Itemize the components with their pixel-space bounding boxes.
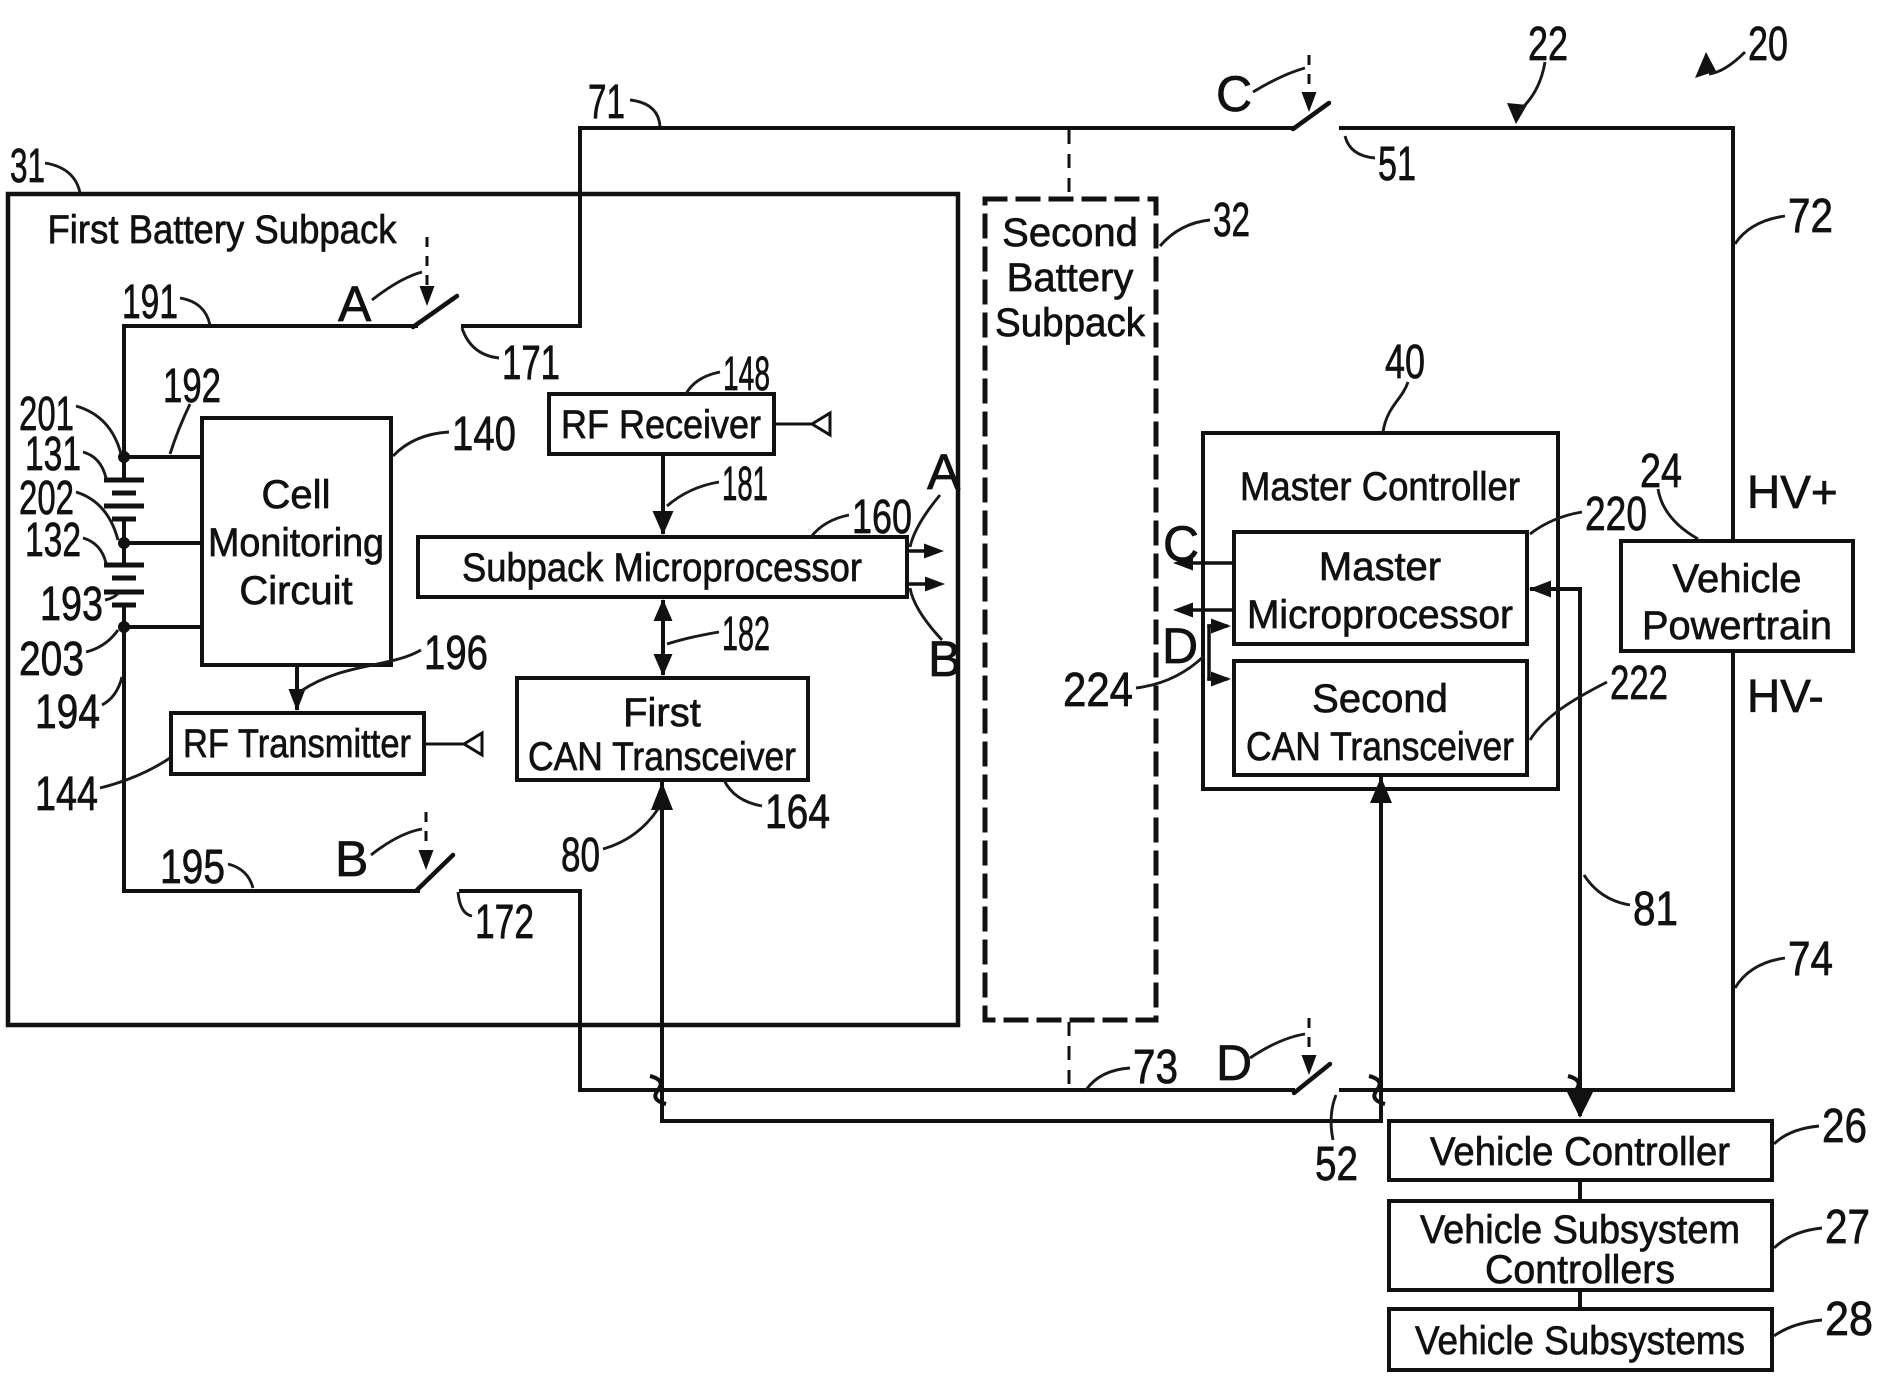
box: RF Receiver 148 — [549, 394, 774, 454]
leader 195 — [228, 864, 253, 888]
crossover jog at CAN line x=662 on HV- bus — [650, 1076, 666, 1104]
arrowhead: switch D control stub — [1302, 1055, 1317, 1075]
wire: CAN bus up to Second CAN Transceiver — [1379, 775, 1383, 1121]
box: RF Transmitter 144 — [171, 713, 424, 774]
leader 171 — [462, 328, 499, 358]
svg-text:172: 172 — [475, 896, 534, 949]
arrowhead: switch B control stub — [419, 850, 434, 870]
svg-text:CAN Transceiver: CAN Transceiver — [1246, 725, 1514, 769]
svg-text:Master Controller: Master Controller — [1240, 465, 1520, 509]
svg-text:CAN Transceiver: CAN Transceiver — [528, 735, 796, 779]
svg-text:171: 171 — [502, 337, 560, 390]
wire 81: Master Microprocessor to Vehicle Controller — [1532, 589, 1580, 1114]
svg-text:51: 51 — [1378, 138, 1416, 191]
arrowhead: D bracket into Second CAN Transceiver — [1211, 672, 1231, 687]
wire: Vehicle Subsystem Controllers to Vehicle Subsystems — [1578, 1290, 1582, 1309]
box: Second Battery Subpack 32 (dashed) — [985, 199, 1156, 1020]
arrowhead: 182 down into First CAN Transceiver — [654, 654, 673, 676]
leader 22 arrow — [1520, 62, 1545, 110]
leader 203 — [86, 630, 118, 652]
leader 71 — [630, 100, 660, 126]
leader 160 — [811, 515, 849, 537]
leader 201 — [76, 406, 121, 454]
wire 191: from battery top node to switch A — [124, 324, 416, 328]
svg-text:Battery: Battery — [1007, 256, 1134, 300]
wire 72: right HV+ vertical down to Vehicle Powertrain — [1731, 128, 1735, 541]
svg-text:195: 195 — [160, 841, 225, 894]
svg-text:Vehicle Subsystem: Vehicle Subsystem — [1420, 1208, 1740, 1252]
leader 132 — [83, 538, 106, 563]
switch D blade 52 — [1294, 1064, 1330, 1093]
svg-text:140: 140 — [452, 408, 516, 461]
antenna symbol of RF Receiver — [812, 413, 830, 435]
wire 172: segment after switch B, then down — [461, 891, 580, 1090]
wire 192: node 201 to Cell Monitoring Circuit — [124, 455, 202, 459]
wire: D-bracket 224 — [1207, 626, 1211, 679]
crossover jog at line 81 x=1580 on HV- bus — [1568, 1076, 1584, 1104]
svg-text:Second: Second — [1002, 211, 1138, 255]
box: Vehicle Subsystem Controllers 27 — [1389, 1201, 1772, 1290]
svg-text:74: 74 — [1788, 933, 1833, 986]
leader A-out — [910, 495, 940, 547]
arrowhead: C upper out of Master Controller — [1173, 556, 1193, 571]
switch A dashed control stub — [426, 237, 429, 288]
svg-text:B: B — [928, 631, 961, 687]
dashed link top bus to Second Battery Subpack — [1068, 130, 1071, 197]
arrowhead: 196 into RF Transmitter — [289, 689, 306, 711]
wire 196: Cell Monitoring Circuit to RF Transmitter — [295, 665, 299, 708]
battery cell 131 plates — [104, 478, 144, 483]
box: Master Microprocessor 220 — [1234, 532, 1527, 644]
arrowhead: CAN bus 80 up into First CAN Transceiver — [651, 782, 673, 810]
svg-text:182: 182 — [722, 608, 770, 661]
box: Cell Monitoring Circuit 140 — [202, 418, 391, 665]
svg-text:31: 31 — [10, 140, 45, 193]
arrowhead: B output of Subpack Microprocessor — [925, 577, 945, 592]
wire 71: top HV+ bus left segment — [580, 126, 1294, 130]
svg-text:193: 193 — [40, 578, 103, 631]
box: Second CAN Transceiver 222 — [1234, 661, 1527, 775]
svg-text:Cell: Cell — [262, 473, 331, 517]
dashed link Second Battery Subpack to bottom bus — [1068, 1022, 1071, 1088]
svg-text:A: A — [927, 444, 961, 500]
battery cell 132 plates — [104, 563, 144, 568]
leader 72 — [1735, 216, 1785, 244]
svg-text:222: 222 — [1610, 657, 1668, 710]
wire 73: HV- bottom bus to switch D — [580, 1088, 1293, 1092]
node 203 — [118, 621, 130, 633]
leader 40 — [1383, 382, 1408, 432]
svg-text:B: B — [335, 831, 368, 887]
wire 182: Subpack Microprocessor to First CAN Transceiver — [661, 602, 665, 673]
svg-text:81: 81 — [1633, 883, 1678, 936]
box: Subpack Microprocessor 160 — [418, 537, 907, 597]
switch C dashed control stub — [1308, 55, 1311, 95]
svg-text:224: 224 — [1063, 664, 1133, 717]
leader 74 — [1735, 958, 1785, 988]
leader 148 — [686, 372, 720, 394]
box: First CAN Transceiver 164 — [517, 678, 808, 780]
svg-text:52: 52 — [1315, 1138, 1358, 1191]
svg-text:RF Transmitter: RF Transmitter — [183, 722, 411, 766]
svg-text:HV-: HV- — [1747, 670, 1824, 722]
svg-text:191: 191 — [122, 276, 178, 329]
leader 144 — [100, 758, 170, 788]
svg-text:32: 32 — [1213, 194, 1250, 247]
leader 194 — [102, 677, 122, 705]
svg-text:28: 28 — [1825, 1293, 1873, 1346]
leader 202 — [76, 492, 118, 540]
arrowhead: switch A control stub — [420, 286, 435, 306]
node 201 — [118, 451, 130, 463]
box: Vehicle Controller 26 — [1389, 1121, 1772, 1180]
leader 192 — [170, 404, 190, 454]
box: Vehicle Powertrain 24 — [1621, 541, 1853, 651]
arrowhead: 81 into Master Microprocessor right edge — [1529, 581, 1551, 598]
leader 193 — [105, 592, 119, 600]
arrowhead: A output of Subpack Microprocessor — [924, 544, 944, 559]
svg-text:Vehicle: Vehicle — [1673, 557, 1802, 601]
arrowhead: D bracket into Master Microprocessor — [1211, 619, 1231, 634]
leader 32 — [1160, 220, 1210, 246]
leader 52 — [1331, 1095, 1336, 1140]
svg-text:First: First — [623, 691, 701, 735]
svg-text:40: 40 — [1385, 336, 1425, 389]
svg-text:Monitoring: Monitoring — [208, 521, 384, 565]
arrowhead: 181 into Subpack Microprocessor — [653, 511, 674, 535]
leader 164 — [724, 780, 762, 806]
leader 20 arrow — [1709, 52, 1745, 74]
leader 26 — [1774, 1126, 1819, 1144]
leader 224 — [1136, 656, 1204, 688]
wire 195: bottom wire to switch B — [124, 889, 418, 893]
svg-text:Subpack Microprocessor: Subpack Microprocessor — [462, 546, 862, 590]
wire: C-arrow lower from Master Microprocessor — [1180, 608, 1234, 612]
leader 31 — [45, 163, 80, 193]
box: First Battery Subpack 31 — [8, 194, 958, 1025]
svg-text:26: 26 — [1822, 1100, 1867, 1153]
wire 194: below battery stack down to bottom wire — [122, 627, 126, 891]
svg-text:First Battery Subpack: First Battery Subpack — [48, 208, 398, 252]
svg-text:27: 27 — [1825, 1201, 1870, 1254]
switch C blade 51 — [1293, 103, 1329, 129]
leader 196 — [301, 650, 421, 691]
svg-text:Second: Second — [1312, 677, 1448, 721]
leader 28 — [1774, 1320, 1822, 1336]
leader D-switch — [1250, 1034, 1305, 1058]
leader 80 — [603, 809, 658, 849]
svg-text:24: 24 — [1640, 445, 1682, 498]
wire: CAN bus bottom run — [662, 1119, 1381, 1123]
svg-text:181: 181 — [722, 458, 768, 511]
leader C-switch — [1253, 68, 1305, 92]
svg-text:22: 22 — [1528, 18, 1568, 71]
wire: node 202 to Cell Monitoring Circuit — [124, 541, 202, 545]
wire: battery inter-cell segments — [122, 457, 126, 479]
wire: vertical from top bus down to switch-A wire — [578, 128, 582, 326]
leader 172 — [458, 892, 472, 916]
svg-text:Vehicle Controller: Vehicle Controller — [1430, 1130, 1730, 1174]
leader A-switch — [372, 272, 422, 300]
crossover jog at CAN riser x=1381 on HV- bus — [1369, 1076, 1385, 1104]
node 202 — [118, 537, 130, 549]
leader B-out — [910, 588, 942, 640]
wire: RF Receiver antenna lead — [774, 423, 812, 426]
box: Master Controller 40 — [1203, 433, 1558, 789]
arrowhead: C lower out of Master Controller — [1173, 603, 1193, 618]
svg-text:132: 132 — [25, 514, 81, 567]
svg-text:RF Receiver: RF Receiver — [561, 403, 761, 447]
wire 71: top HV+ bus right segment after switch C — [1341, 126, 1733, 130]
wire: Subpack Microprocessor B output — [907, 582, 934, 586]
wire: Subpack Microprocessor A output — [907, 549, 934, 553]
svg-text:80: 80 — [561, 829, 600, 882]
leader 81 — [1584, 875, 1630, 905]
leader 191 — [180, 298, 210, 325]
wire: C-arrow upper from Master Microprocessor — [1180, 561, 1234, 565]
svg-text:71: 71 — [588, 76, 625, 129]
wire: RF Transmitter antenna lead — [424, 743, 464, 746]
switch D dashed control stub — [1308, 1018, 1311, 1058]
svg-text:Master: Master — [1319, 545, 1441, 589]
leader 220 — [1530, 512, 1582, 534]
leader 73 — [1086, 1068, 1130, 1090]
leader 24 — [1658, 489, 1698, 539]
wire: battery stack top drop — [122, 326, 126, 457]
svg-text:72: 72 — [1788, 190, 1833, 243]
wire: node 203 to Cell Monitoring Circuit — [124, 625, 202, 629]
arrowhead: figure pointer 20 — [1695, 52, 1716, 78]
svg-text:220: 220 — [1585, 488, 1647, 541]
leader 131 — [83, 452, 106, 478]
svg-text:192: 192 — [163, 360, 221, 413]
wire 80: CAN bus down from First CAN Transceiver — [660, 780, 664, 1121]
svg-text:D: D — [1216, 1035, 1252, 1091]
wire 74: right HV- vertical from Vehicle Powertrain down — [1731, 651, 1735, 1090]
arrowhead: 81 down into Vehicle Controller — [1567, 1092, 1593, 1118]
switch A blade 171 — [413, 296, 457, 327]
box: Vehicle Subsystems 28 — [1389, 1309, 1772, 1370]
switch B blade 172 — [417, 855, 453, 890]
leader 181 — [667, 482, 719, 506]
arrowhead: 182 up into Subpack Microprocessor — [654, 599, 673, 621]
svg-text:Powertrain: Powertrain — [1642, 604, 1832, 648]
wire 181: RF Receiver to Subpack Microprocessor — [661, 454, 665, 532]
svg-text:HV+: HV+ — [1747, 466, 1838, 518]
svg-text:A: A — [338, 276, 372, 332]
leader B-switch — [371, 829, 422, 855]
svg-text:Circuit: Circuit — [239, 569, 352, 613]
leader 51 — [1345, 136, 1375, 158]
svg-text:148: 148 — [723, 348, 770, 401]
leader 222 — [1530, 682, 1607, 740]
svg-text:C: C — [1163, 516, 1199, 572]
arrowhead: switch C control stub — [1302, 92, 1317, 112]
arrowhead: pointer 22 onto top bus — [1507, 103, 1527, 124]
svg-text:Vehicle Subsystems: Vehicle Subsystems — [1415, 1319, 1745, 1363]
svg-text:194: 194 — [35, 686, 100, 739]
svg-text:164: 164 — [765, 786, 830, 839]
wire: Vehicle Controller to Vehicle Subsystem Controllers — [1578, 1180, 1582, 1201]
switch B dashed control stub — [425, 812, 428, 852]
leader 182 — [667, 632, 719, 644]
svg-text:Microprocessor: Microprocessor — [1247, 593, 1513, 637]
leader 27 — [1774, 1228, 1822, 1248]
svg-text:Subpack: Subpack — [995, 301, 1146, 345]
svg-text:160: 160 — [852, 491, 912, 544]
svg-text:20: 20 — [1748, 18, 1788, 71]
svg-text:203: 203 — [19, 633, 84, 686]
svg-text:196: 196 — [424, 627, 488, 680]
wire: HV- bottom bus after switch D to right vertical — [1341, 1088, 1733, 1092]
arrowhead: CAN bus up into Second CAN Transceiver — [1370, 777, 1392, 803]
leader 140 — [393, 432, 449, 456]
antenna symbol of RF Transmitter — [464, 733, 482, 755]
svg-text:C: C — [1216, 66, 1252, 122]
svg-text:144: 144 — [35, 768, 98, 821]
svg-text:73: 73 — [1133, 1041, 1178, 1094]
svg-text:Controllers: Controllers — [1485, 1248, 1675, 1292]
wire 191: segment after switch A — [463, 324, 580, 328]
